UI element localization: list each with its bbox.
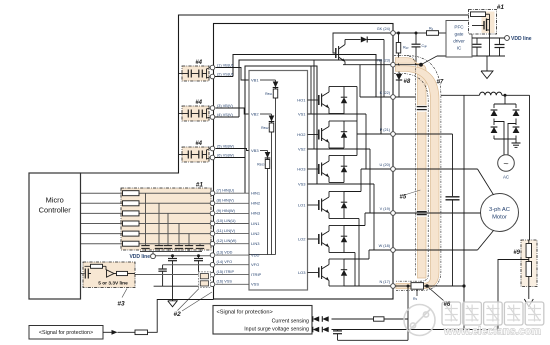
wire VB2 to VDD rail <box>271 132 273 255</box>
wire VB2 internal <box>260 113 272 115</box>
svg-text:RS: RS <box>413 297 418 301</box>
svg-text:ITRIP: ITRIP <box>251 272 262 277</box>
wire VS1 drop right of IC <box>310 66 312 114</box>
capacitor C3 <box>164 245 172 247</box>
resistor 5V top <box>85 265 91 267</box>
wire cap drop 2 <box>158 203 160 245</box>
capacitor C4 <box>175 245 183 247</box>
capacitor Cgp <box>415 32 418 35</box>
pin (8) HIN(V) <box>210 201 215 206</box>
wire VB(W) to IC VB3 <box>216 149 250 151</box>
svg-text:Cgp: Cgp <box>422 44 428 48</box>
capacitor 5V input <box>84 269 86 279</box>
svg-text:driver: driver <box>453 39 465 44</box>
resistor R1 (gate series) <box>123 191 140 196</box>
resistor R3 (gate series) <box>123 211 140 216</box>
pin (2) VS(U) <box>210 74 215 79</box>
svg-text:(13) VDD: (13) VDD <box>217 251 233 255</box>
wire VS(U) stub <box>215 76 233 78</box>
capacitor filter VSS <box>200 281 208 286</box>
wire HIN/LIN signal 3 <box>81 212 212 214</box>
wire N row <box>344 285 391 287</box>
wire K riser <box>359 65 361 97</box>
Signal for protection box (left) <box>29 326 103 340</box>
wire P bus collectors <box>344 86 357 88</box>
capacitor bootstrap 3a <box>187 151 189 159</box>
wire U riser from VS1 <box>365 114 367 169</box>
wire internal VDD rail <box>249 254 276 256</box>
motor M1 (3-ph AC Motor) <box>481 194 519 232</box>
diode bridge D1 <box>490 108 498 119</box>
svg-text:VFO: VFO <box>251 262 259 267</box>
wire LO3 collector riser <box>368 250 370 259</box>
wire leader #6 <box>429 288 444 301</box>
wire right edge drop to divider <box>529 95 531 240</box>
resistor R2 (gate series) <box>123 201 140 206</box>
wire N0 row (pin 23) <box>343 64 391 66</box>
pin U (20) <box>391 167 396 172</box>
svg-text:IC: IC <box>457 46 462 51</box>
pin (12) LIN(W) <box>210 241 215 246</box>
svg-text:Controller: Controller <box>39 206 72 215</box>
resistor R<tspan font-size='2.6'>BS2</tspan> <box>271 122 273 124</box>
PFC gate driver IC box <box>446 21 472 58</box>
capacitor bootstrap 2b <box>198 110 200 118</box>
capacitor VFO filter <box>162 265 164 269</box>
bus trace N (thick) <box>396 66 440 289</box>
wire leader #5 <box>406 190 420 195</box>
wire VB(V) to IC VB2 <box>216 108 250 114</box>
svg-text:#4: #4 <box>195 141 202 147</box>
wire VFO row <box>163 264 211 266</box>
wire HIN/LIN signal 2 <box>81 202 212 204</box>
highlight outline #7 <box>394 56 415 277</box>
wire boost input row <box>441 94 480 96</box>
resistor Rg <box>416 32 427 34</box>
pin (11) LIN(V) <box>210 231 215 236</box>
wire VB3 to VDD rail <box>267 169 269 255</box>
wire LO2 gate <box>308 238 319 240</box>
wire VDD line row <box>155 255 211 257</box>
svg-text:(9) HIN(W): (9) HIN(W) <box>217 209 236 213</box>
pin (14) VFO <box>210 262 215 267</box>
svg-text:#2: #2 <box>174 311 182 318</box>
wire ITRIP row <box>135 274 211 276</box>
pin (15) ITRIP <box>210 272 215 277</box>
rectifier bridge rails <box>494 103 516 105</box>
wire HO2 gate <box>308 134 319 136</box>
wire PFC driver to FET gate <box>472 25 478 27</box>
resistor R5 (gate series) <box>123 231 140 236</box>
pin (5) VB(W) <box>210 146 215 151</box>
wire (9) HIN(W) into IC <box>216 212 250 214</box>
wire N0 row through traces <box>395 64 421 66</box>
bus trace P (thick) <box>396 58 427 278</box>
wire U row to pin 20 <box>361 168 391 170</box>
wire bus leader diagonal <box>421 56 437 65</box>
svg-text:N (17): N (17) <box>379 280 390 284</box>
capacitor VDD deco 1 <box>172 256 174 259</box>
svg-text:K (22): K (22) <box>380 91 391 95</box>
wire VS2 drop right of IC <box>313 60 315 149</box>
svg-text:#4: #4 <box>195 100 202 106</box>
resistor filter ITRIP <box>200 274 208 279</box>
svg-text:5 or 3.3V line: 5 or 3.3V line <box>98 280 128 286</box>
pin (3) VB(V) <box>210 106 215 111</box>
wire MCU to 5V box <box>81 273 85 275</box>
wire current sensing row <box>312 318 408 320</box>
wire VS2 row <box>308 148 371 150</box>
svg-text:#5: #5 <box>400 195 407 201</box>
wire (14) VFO into IC <box>216 264 250 266</box>
wire cap drop 4 <box>178 224 180 246</box>
ground rail PFC <box>437 55 505 57</box>
wire cap drop 3 <box>167 213 169 245</box>
wire cap drop 1 <box>145 193 147 245</box>
ground bridge negative <box>515 139 517 143</box>
capacitor C1 <box>141 245 149 247</box>
svg-text:V (19): V (19) <box>380 207 391 211</box>
svg-text:RBS2: RBS2 <box>261 126 269 130</box>
wire VB(V) <box>207 108 211 114</box>
svg-text:gate: gate <box>455 32 464 37</box>
IGBT Q1 (high side U) <box>318 95 320 105</box>
svg-text:#9: #9 <box>513 250 520 256</box>
wire bootstrap cap rail 2 <box>178 113 188 115</box>
capacitor C5 <box>185 245 193 247</box>
svg-text:3-ph AC: 3-ph AC <box>489 207 510 213</box>
wire HO1 gate <box>308 99 319 101</box>
svg-text:VS1: VS1 <box>298 111 306 116</box>
pin (6) VS(W) <box>210 155 215 160</box>
svg-text:#1: #1 <box>497 4 505 11</box>
svg-text:RBS3: RBS3 <box>257 163 265 167</box>
Signal for protection box (bottom) <box>213 306 312 335</box>
svg-text:Current sensing: Current sensing <box>272 319 309 325</box>
junction dot bus <box>419 63 423 67</box>
Micro Controller box <box>29 173 81 299</box>
capacitor VDD deco 2 <box>198 256 200 259</box>
wire VS3 row <box>308 183 375 185</box>
resistor PFC drain <box>471 12 486 17</box>
gate driver IC U1 body <box>249 71 308 291</box>
svg-text:(12) LIN(W): (12) LIN(W) <box>217 239 238 243</box>
wire cap drop 6 <box>199 244 201 246</box>
wire FET source drop <box>489 19 491 57</box>
MOSFET Q8 (PFC FET) <box>486 13 490 15</box>
resistor Rgp <box>397 32 400 35</box>
wire VS(V) stub <box>215 116 239 118</box>
IGBT Q5 (low side V) <box>318 234 320 244</box>
svg-text:LIN3: LIN3 <box>251 241 260 246</box>
wire nested row 3 (VS W) <box>245 66 317 193</box>
node VDD line (top) <box>505 36 510 41</box>
diode #8 (zener) <box>398 65 400 74</box>
svg-text:#1: #1 <box>196 182 204 189</box>
resistor shunt RS <box>411 283 424 290</box>
svg-text:www.elecfans.com: www.elecfans.com <box>443 326 541 338</box>
junction dot shunt <box>425 284 429 288</box>
input RC network block #1 box <box>121 188 211 250</box>
node VDD line (bottom) <box>151 254 156 259</box>
diode current sense a <box>313 316 332 323</box>
svg-text:(14) VFO: (14) VFO <box>217 260 233 264</box>
wire VS(U) <box>207 74 211 79</box>
capacitor bootstrap 3b <box>198 151 200 159</box>
svg-text:PFC: PFC <box>454 25 464 30</box>
wire bootstrap cap rail 1 <box>178 73 188 75</box>
svg-text:#6: #6 <box>444 302 451 308</box>
regulator block #3 box <box>83 262 135 288</box>
resistor divider R2 <box>528 258 530 262</box>
watermark CJK text <box>442 302 544 338</box>
diode bootstrap VB2 <box>271 114 273 116</box>
svg-text:HO2: HO2 <box>297 132 306 137</box>
capacitor surge filter <box>337 330 339 331</box>
capacitor VDD 2 <box>499 38 501 44</box>
wire N row right of module <box>395 285 464 287</box>
resistor current sense <box>374 317 385 321</box>
svg-text:#8: #8 <box>404 79 411 85</box>
svg-text:VS3: VS3 <box>298 181 306 186</box>
RC filter block #2 box <box>199 272 211 288</box>
bootstrap capacitor block #4 (W) box <box>182 147 209 162</box>
wire K row right <box>395 96 416 98</box>
svg-text:U (20): U (20) <box>379 163 390 167</box>
svg-text:VDD: VDD <box>251 252 260 257</box>
svg-text:(15) ITRIP: (15) ITRIP <box>217 270 235 274</box>
svg-text:HIN1: HIN1 <box>251 191 261 196</box>
svg-text:#3: #3 <box>117 301 125 308</box>
resistor protection <box>135 330 148 335</box>
capacitor C2 <box>155 245 163 247</box>
buffer amp #3 <box>107 270 115 277</box>
svg-text:Rgp: Rgp <box>403 46 409 50</box>
pin K (22) <box>391 95 396 100</box>
svg-text:LO3: LO3 <box>298 270 306 275</box>
resistor 5V out <box>114 273 117 275</box>
wire LO1 gate <box>308 204 319 206</box>
wire P row to pin 21 <box>357 133 391 135</box>
wire VB3 internal <box>260 150 268 152</box>
wire phase V to motor <box>395 212 480 214</box>
wire bridge AC taps <box>494 122 504 155</box>
capacitor bus snubber 1 <box>417 105 427 111</box>
wire HIN/LIN signal 5 <box>81 233 212 235</box>
pin V (19) <box>391 211 396 216</box>
resistor divider R1 <box>528 240 530 244</box>
wire phase U to motor <box>395 168 477 170</box>
svg-text:LO1: LO1 <box>298 202 306 207</box>
svg-text:VDD line: VDD line <box>511 36 532 42</box>
wire HIN/LIN signal 4 <box>81 223 212 225</box>
wire VB(U) <box>207 68 211 74</box>
capacitor bootstrap 2a <box>187 110 189 118</box>
svg-text:VB2: VB2 <box>251 111 259 116</box>
capacitor C6 <box>196 245 204 247</box>
wire VS(V) <box>207 114 211 119</box>
wire (10) LIN(U) into IC <box>216 223 250 225</box>
svg-text:VS2: VS2 <box>298 146 306 151</box>
diode bridge D3 <box>490 125 498 136</box>
wire nested row 1 (VS U) <box>233 55 376 98</box>
svg-text:P (21): P (21) <box>380 128 391 132</box>
wire (15) ITRIP into IC <box>216 274 250 276</box>
wire VB1 internal <box>260 79 276 81</box>
wire (13) VDD into IC <box>216 254 250 256</box>
wire LO2 emitter to N <box>344 252 355 254</box>
svg-text:Motor: Motor <box>492 215 507 221</box>
svg-text:<Signal for protection>: <Signal for protection> <box>217 310 273 316</box>
wire cap common rail to VDD line node <box>140 251 202 253</box>
svg-text:AC: AC <box>503 175 509 180</box>
diode bootstrap VB1 <box>275 80 277 82</box>
wire phase W to motor <box>395 249 477 251</box>
svg-text:W (18): W (18) <box>379 244 391 248</box>
svg-text:HIN2: HIN2 <box>251 201 261 206</box>
pin GK (24) <box>391 31 396 36</box>
svg-text:(7) HIN(U): (7) HIN(U) <box>217 189 235 193</box>
capacitor DC link <box>452 134 454 196</box>
pin (13) VDD <box>210 253 215 258</box>
IPM module boundary <box>214 24 394 300</box>
diode surge sense b <box>322 327 328 333</box>
pin N (17) <box>391 284 396 289</box>
svg-text:N0 (23): N0 (23) <box>377 59 390 63</box>
diode surge sense a <box>313 326 332 333</box>
svg-text:LIN2: LIN2 <box>251 231 260 236</box>
svg-text:LIN1: LIN1 <box>251 221 260 226</box>
wire VS1 row <box>308 113 367 115</box>
divider block #9 box <box>521 240 537 287</box>
wire LO1 emitter to N <box>344 218 359 220</box>
svg-text:#7: #7 <box>437 80 444 86</box>
wire VDD row <box>472 37 505 39</box>
IGBT Q7 (PFC) <box>335 48 337 58</box>
pin (10) LIN(U) <box>210 221 215 226</box>
resistor R<tspan font-size='2.6'>BS3</tspan> <box>267 158 269 160</box>
wire W row to pin 18 <box>369 249 391 251</box>
wire ground rail <box>154 285 199 287</box>
wire VS(W) stub <box>215 157 245 159</box>
wire HIN/LIN signal 6 <box>81 243 212 245</box>
wire bootstrap cap rail 3 <box>178 154 188 156</box>
wire GK gate loop <box>333 33 391 53</box>
MOSFET #1 shading <box>482 12 495 34</box>
wire divider tap <box>498 260 529 335</box>
wire (8) HIN(V) into IC <box>216 202 250 204</box>
wire (12) LIN(W) into IC <box>216 243 250 245</box>
wire inductor to right edge <box>502 94 530 96</box>
wire HO3 gate <box>308 168 319 170</box>
pin W (18) <box>391 248 396 253</box>
svg-text:Rg: Rg <box>429 27 434 31</box>
wire (16) VSS into IC <box>216 283 250 285</box>
wire VB1 to VDD rail <box>275 98 277 255</box>
diode current sense b <box>322 316 328 322</box>
wire GK row right <box>395 32 416 34</box>
svg-text:HO1: HO1 <box>297 97 306 102</box>
svg-text:HO3: HO3 <box>297 166 306 171</box>
pin (16) VSS <box>210 282 215 287</box>
diode bridge D4 <box>512 125 520 136</box>
resistor R<tspan font-size='2.6'>BS1</tspan> <box>275 88 277 90</box>
wire cap drop 5 <box>188 234 190 246</box>
wire V row to pin 19 <box>365 212 391 214</box>
svg-text:VSS: VSS <box>251 282 259 287</box>
capacitor bootstrap 1a <box>187 70 189 78</box>
wire nested row 2 (VS V) <box>239 60 381 134</box>
svg-text:HIN3: HIN3 <box>251 211 261 216</box>
wire leader #2 b <box>182 292 212 311</box>
wire boost diode drop <box>383 40 385 98</box>
svg-text:~: ~ <box>503 158 508 168</box>
wire VSS stub <box>199 283 211 285</box>
svg-text:Micro: Micro <box>46 196 64 205</box>
capacitor VDD 1 <box>476 38 478 44</box>
diode boost D7 <box>345 39 361 41</box>
wire VS(W) <box>207 155 211 160</box>
wire protection arrow <box>103 331 112 333</box>
svg-text:GK (24): GK (24) <box>377 27 391 31</box>
wire LO1 collector riser <box>360 169 362 192</box>
wire LO3 gate <box>308 272 319 274</box>
wire leader #2 a <box>178 289 200 311</box>
ground divider (arrow) <box>524 299 533 307</box>
wire shunt to current sensing <box>407 286 409 340</box>
IGBT Q2 (high side V) <box>318 130 320 140</box>
ground main (triangle) <box>168 301 178 307</box>
capacitor bootstrap 1b <box>198 70 200 78</box>
capacitor bus snubber 2 <box>417 210 427 216</box>
svg-text:(10) LIN(U): (10) LIN(U) <box>217 219 237 223</box>
resistor R4 (gate series) <box>123 221 140 226</box>
wire leader #3 <box>122 289 127 298</box>
wire V riser from VS2 <box>369 149 371 213</box>
wire K row (pin 22) <box>360 96 391 98</box>
pin (7) HIN(U) <box>210 191 215 196</box>
ground PFC <box>481 71 493 79</box>
wire W riser from VS3 <box>373 184 375 250</box>
diode bootstrap VB3 <box>267 151 269 153</box>
wire (11) LIN(V) into IC <box>216 233 250 235</box>
wire HIN/LIN signal 1 <box>81 192 212 194</box>
svg-text:(11) LIN(V): (11) LIN(V) <box>217 229 236 233</box>
pin (4) VS(V) <box>210 115 215 120</box>
svg-text:(8) HIN(V): (8) HIN(V) <box>217 199 235 203</box>
MOSFET block #1 box <box>469 10 497 35</box>
wire P row to DC link cap <box>395 133 452 135</box>
IGBT Q4 (low side U) <box>318 200 320 210</box>
wire rectified bus vertical <box>463 95 465 286</box>
pin P (21) <box>391 132 396 137</box>
svg-text:VB3: VB3 <box>251 148 259 153</box>
IGBT Q6 (low side W) <box>318 268 320 278</box>
wire protection riser <box>148 300 214 333</box>
wire VB(U) to IC VB1 <box>216 68 250 81</box>
IGBT Q3 (high side W) <box>318 164 320 174</box>
resistor R6 (gate series) <box>123 241 140 246</box>
svg-text:(16) VSS: (16) VSS <box>217 280 233 284</box>
wire surge sensing row <box>312 329 498 331</box>
pin (9) HIN(W) <box>210 211 215 216</box>
AC source G1 <box>498 155 515 172</box>
wire VB(W) <box>207 149 211 155</box>
diode bridge D2 <box>512 108 520 119</box>
inductor L1 <box>480 92 502 95</box>
svg-text:VDD line: VDD line <box>129 254 150 260</box>
bootstrap capacitor block #4 (U) box <box>182 66 209 81</box>
